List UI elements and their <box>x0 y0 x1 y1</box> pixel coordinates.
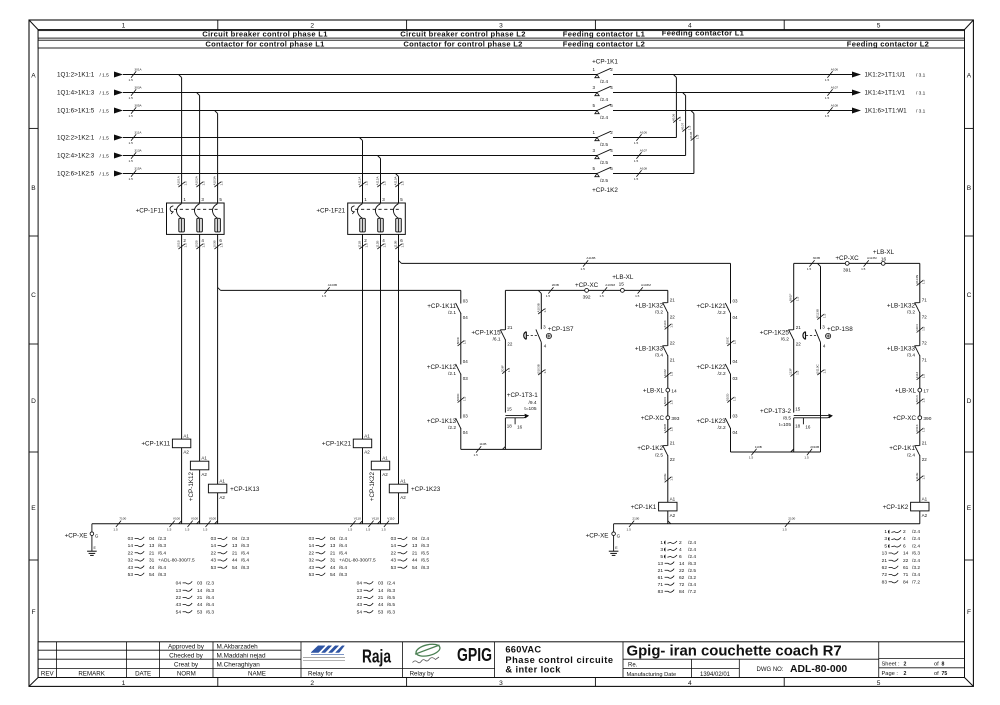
svg-text:/6.5: /6.5 <box>421 558 429 564</box>
svg-text:A2: A2 <box>364 450 370 455</box>
svg-text:22: 22 <box>796 341 802 346</box>
svg-text:1.5: 1.5 <box>922 374 926 379</box>
wire row2 L1 phase 2 <box>123 92 597 94</box>
svg-text:22: 22 <box>903 558 909 564</box>
svg-text:03: 03 <box>197 581 203 587</box>
svg-text:3: 3 <box>499 23 503 30</box>
svg-text:A113A: A113A <box>394 176 398 186</box>
svg-text:1.5: 1.5 <box>634 159 639 163</box>
svg-text:/2.4: /2.4 <box>600 79 608 85</box>
svg-text:510D: 510D <box>726 393 730 401</box>
svg-text:2: 2 <box>310 680 314 687</box>
svg-text:+CP-1K12: +CP-1K12 <box>427 364 457 371</box>
wire label slash A107 output <box>827 89 832 95</box>
wire row5 L2 phase 2 <box>123 155 597 157</box>
wire label slash V100c <box>206 521 211 527</box>
svg-text:311A: 311A <box>134 130 142 134</box>
svg-text:1K1:6>1T1:W1: 1K1:6>1T1:W1 <box>865 108 908 115</box>
svg-text:110B: 110B <box>479 442 486 446</box>
svg-text:13: 13 <box>412 543 418 549</box>
svg-text:Gpig- iran couchette coach R7: Gpig- iran couchette coach R7 <box>627 643 842 659</box>
wire label slash B61F <box>791 297 797 302</box>
svg-text:1.5: 1.5 <box>167 527 172 531</box>
svg-text:/6.3: /6.3 <box>158 543 166 549</box>
svg-text:/2.3: /2.3 <box>241 536 249 542</box>
svg-text:22: 22 <box>670 457 676 462</box>
svg-text:+CP-1K1: +CP-1K1 <box>631 504 657 511</box>
svg-text:B113C: B113C <box>816 364 820 374</box>
svg-text:1.5: 1.5 <box>782 527 787 531</box>
branch row6 to fuse wire 6 with bevel <box>396 174 399 177</box>
svg-text:3: 3 <box>660 547 663 553</box>
svg-text:A1: A1 <box>670 497 676 502</box>
svg-text:+CP-XE: +CP-XE <box>586 532 609 539</box>
svg-text:03: 03 <box>378 581 384 587</box>
svg-text:5: 5 <box>884 543 887 549</box>
svg-text:M.Akbarzadeh: M.Akbarzadeh <box>217 644 259 651</box>
svg-text:21: 21 <box>658 568 664 574</box>
svg-text:13: 13 <box>176 588 182 594</box>
chain F wire segment <box>793 339 795 412</box>
wire label slash A113N <box>917 280 923 285</box>
svg-text:21: 21 <box>670 441 676 446</box>
svg-text:1022: 1022 <box>663 369 667 376</box>
svg-text:31: 31 <box>149 558 155 564</box>
chain H wire segment <box>919 355 921 388</box>
svg-text:16: 16 <box>805 424 811 429</box>
sheet/page cell lines <box>879 658 965 660</box>
svg-text:21: 21 <box>670 357 676 362</box>
svg-text:1.5: 1.5 <box>796 370 800 375</box>
branch row2 to fuse wire 2 with bevel <box>197 93 200 96</box>
wire label slash 313A <box>131 152 136 158</box>
svg-text:/2.4: /2.4 <box>421 536 429 542</box>
svg-text:/6.4: /6.4 <box>339 550 347 556</box>
svg-text:84: 84 <box>679 589 685 595</box>
svg-text:22: 22 <box>507 341 513 346</box>
svg-text:1.5: 1.5 <box>473 453 478 457</box>
svg-text:1.5: 1.5 <box>381 527 386 531</box>
svg-text:ADL-80-000: ADL-80-000 <box>790 664 847 675</box>
svg-text:A013: A013 <box>915 395 919 403</box>
wire label slash B103B chainC <box>538 370 544 375</box>
wire label slash A111A <box>359 182 365 187</box>
svg-text:/6.5: /6.5 <box>387 595 395 601</box>
svg-text:113F: 113F <box>789 368 793 375</box>
wire label slash V110a <box>350 521 355 527</box>
svg-text:72: 72 <box>922 341 928 346</box>
svg-text:03: 03 <box>309 536 315 542</box>
svg-text:6: 6 <box>679 554 682 560</box>
svg-text:21: 21 <box>197 595 203 601</box>
svg-text:04: 04 <box>176 581 182 587</box>
contact CP-1K22 aux 04-03 <box>725 364 730 374</box>
svg-text:Sheet :: Sheet : <box>882 661 900 667</box>
svg-text:Contactor for control phase L1: Contactor for control phase L1 <box>205 39 325 48</box>
wire label slash 500D <box>458 397 464 402</box>
svg-text:54: 54 <box>412 565 418 571</box>
join vertical row2-row5 at x=686 <box>683 93 686 96</box>
svg-text:03: 03 <box>463 376 469 381</box>
svg-text:V110: V110 <box>387 517 394 521</box>
svg-text:04: 04 <box>733 430 739 435</box>
svg-text:1.5: 1.5 <box>463 340 467 345</box>
svg-text:313A: 313A <box>134 148 142 152</box>
svg-text:1Q1:2>1K1:1: 1Q1:2>1K1:1 <box>57 72 95 79</box>
wire label slash 2010B <box>807 449 812 455</box>
wire fuse2 pole2 down to coil CP-1K22 <box>380 234 382 461</box>
wire label slash A103M <box>602 287 607 293</box>
svg-text:/2.5: /2.5 <box>600 142 608 148</box>
svg-text:A108: A108 <box>640 166 648 170</box>
svg-text:1.5: 1.5 <box>822 313 826 318</box>
svg-text:/6.4: /6.4 <box>339 543 347 549</box>
svg-text:15: 15 <box>619 282 625 288</box>
svg-text:+CP-1K22: +CP-1K22 <box>369 471 376 501</box>
svg-text:+CP-1F21: +CP-1F21 <box>316 208 345 215</box>
svg-text:+CP-1K12: +CP-1K12 <box>188 471 195 501</box>
svg-text:1.5: 1.5 <box>183 181 187 186</box>
svg-text:M.Maddahi nejad: M.Maddahi nejad <box>217 653 266 660</box>
svg-text:1.5: 1.5 <box>364 243 368 248</box>
wire label slash 303B <box>809 260 814 266</box>
svg-text:04: 04 <box>330 536 336 542</box>
svg-text:B113B: B113B <box>816 309 820 318</box>
wire label slash A102A <box>196 182 202 187</box>
svg-text:203B: 203B <box>552 283 559 287</box>
svg-text:2010B: 2010B <box>810 445 819 449</box>
svg-text:22: 22 <box>211 550 217 556</box>
svg-text:1.5: 1.5 <box>185 527 190 531</box>
svg-text:F: F <box>967 609 971 616</box>
contact CP-1K12 aux 04-03 <box>456 364 461 374</box>
svg-text:G: G <box>95 533 99 538</box>
svg-text:/6.4: /6.4 <box>206 595 214 601</box>
svg-text:+CP-XC: +CP-XC <box>575 282 599 289</box>
svg-text:101B: 101B <box>177 240 181 247</box>
svg-text:22: 22 <box>357 595 363 601</box>
wire label slash 7100 left <box>116 521 121 527</box>
svg-text:54: 54 <box>357 609 363 615</box>
wire label slash A113B <box>583 260 588 266</box>
svg-text:1.5: 1.5 <box>183 243 187 248</box>
svg-text:+LB-XL: +LB-XL <box>612 274 634 281</box>
earth terminal CP-XE right <box>613 524 615 532</box>
svg-text:/2.2: /2.2 <box>718 310 726 316</box>
svg-text:/2.2: /2.2 <box>718 371 726 377</box>
svg-text:+CP-XC: +CP-XC <box>835 255 859 262</box>
svg-text:/8.3: /8.3 <box>339 572 347 578</box>
wire fuse2 pole1 down to coil CP-1K21 <box>362 234 364 439</box>
svg-text:+CP-1K2: +CP-1K2 <box>883 504 909 511</box>
svg-text:A103M: A103M <box>605 283 615 287</box>
svg-text:A2: A2 <box>670 513 676 518</box>
svg-text:V100: V100 <box>173 517 181 521</box>
contact LB-1K33 22-21 <box>663 345 668 355</box>
svg-text:+CP-1K1: +CP-1K1 <box>889 445 915 452</box>
svg-text:+ADL-80-300/7.5: +ADL-80-300/7.5 <box>158 558 195 564</box>
wire label slash A103B <box>324 287 329 293</box>
contact CP-1K1 pole 1-2 <box>595 75 599 78</box>
svg-text:2100: 2100 <box>788 517 795 521</box>
branch row1 to fuse wire 1 with bevel <box>179 75 182 78</box>
wire label slash 305A <box>131 107 136 113</box>
title block horizontal lines left section <box>38 649 301 651</box>
svg-text:A: A <box>31 73 36 80</box>
svg-text:+CP-1T3-2: +CP-1T3-2 <box>760 408 791 415</box>
svg-text:22: 22 <box>391 550 397 556</box>
relay coil CP-1K13 <box>208 484 226 493</box>
svg-text:C: C <box>31 292 36 299</box>
svg-text:C: C <box>967 292 972 299</box>
svg-text:1.5: 1.5 <box>670 476 674 481</box>
svg-text:NORM: NORM <box>177 671 196 678</box>
wire label slash 2100 b <box>785 521 790 527</box>
svg-text:1Q1:6>1K1:5: 1Q1:6>1K1:5 <box>57 108 95 115</box>
svg-text:1.5: 1.5 <box>543 369 547 374</box>
svg-text:510C: 510C <box>726 336 730 344</box>
svg-text:22: 22 <box>679 568 685 574</box>
chain B tee bevel at bottom <box>502 446 505 449</box>
svg-text:62: 62 <box>679 575 685 581</box>
svg-text:t=105: t=105 <box>779 422 791 428</box>
svg-text:+CP-1K11: +CP-1K11 <box>141 441 170 448</box>
svg-text:/2.5: /2.5 <box>600 178 608 184</box>
svg-text:1.5: 1.5 <box>626 527 631 531</box>
svg-text:22: 22 <box>670 341 676 346</box>
wire label slash 301A <box>131 71 136 77</box>
chain D wire segment <box>667 420 669 446</box>
svg-text:/ 1.5: / 1.5 <box>100 91 110 97</box>
bottom connector2 wire <box>731 451 821 453</box>
svg-text:1.5: 1.5 <box>128 96 133 100</box>
chain H wire down to coil CP-1K2 <box>919 455 921 502</box>
svg-text:1.5: 1.5 <box>670 400 674 405</box>
svg-text:1.5: 1.5 <box>203 527 208 531</box>
svg-text:305A: 305A <box>134 103 142 107</box>
svg-text:21: 21 <box>232 550 238 556</box>
wire label slash 1112 <box>917 375 923 380</box>
wire label slash A101A <box>178 182 184 187</box>
svg-text:/8.3: /8.3 <box>241 565 249 571</box>
svg-text:04: 04 <box>733 359 739 364</box>
chain E wire down to bottom connector2 <box>730 428 732 452</box>
svg-text:14: 14 <box>903 551 909 557</box>
svg-text:A1: A1 <box>183 433 189 438</box>
svg-text:53: 53 <box>309 572 315 578</box>
svg-text:Re.: Re. <box>628 662 638 668</box>
wire label slash A107 <box>636 152 641 158</box>
svg-text:1.5: 1.5 <box>825 78 830 82</box>
svg-text:+CP-1K11: +CP-1K11 <box>427 303 456 310</box>
title block outline <box>38 642 964 678</box>
svg-text:53: 53 <box>378 609 384 615</box>
chain H corner from connector2 <box>919 263 921 303</box>
svg-text:/6.3: /6.3 <box>206 588 214 594</box>
svg-text:1.5: 1.5 <box>113 527 118 531</box>
svg-text:& inter lock: & inter lock <box>505 665 561 675</box>
svg-text:03: 03 <box>463 298 469 303</box>
svg-text:1.5: 1.5 <box>546 294 551 298</box>
bottom column scale ticks <box>217 678 219 687</box>
branch row3 to fuse wire 3 with bevel <box>215 111 218 114</box>
svg-text:/6.4: /6.4 <box>158 565 166 571</box>
wire coil CP-1K2 to bus3 <box>919 511 921 524</box>
svg-text:6: 6 <box>903 543 906 549</box>
svg-text:1K1:4>1T1:V1: 1K1:4>1T1:V1 <box>865 90 906 97</box>
timer contact CP-1T3-2 symbol pins 15/18/16 <box>794 414 829 416</box>
wire coil CP-1K22 to bus <box>380 470 382 524</box>
svg-text:/3.2: /3.2 <box>688 575 696 581</box>
svg-text:+CP-1K25: +CP-1K25 <box>760 329 790 336</box>
svg-text:43: 43 <box>176 602 182 608</box>
chain D wire segment <box>667 355 669 388</box>
svg-text:1.5: 1.5 <box>922 475 926 480</box>
svg-text:V100: V100 <box>209 517 217 521</box>
svg-text:A: A <box>967 73 972 80</box>
wire row4 L2 phase 1 <box>123 137 597 139</box>
svg-text:03: 03 <box>733 413 739 418</box>
svg-text:/2.3: /2.3 <box>158 536 166 542</box>
svg-text:A103B: A103B <box>328 283 337 287</box>
svg-text:1112: 1112 <box>915 371 919 378</box>
svg-text:1.5: 1.5 <box>804 456 809 460</box>
svg-text:/6.3: /6.3 <box>912 551 920 557</box>
svg-text:/6.3: /6.3 <box>421 543 429 549</box>
svg-text:/ 3.1: / 3.1 <box>916 73 926 79</box>
svg-text:15: 15 <box>507 406 513 411</box>
relay coil CP-1K2 <box>911 502 929 511</box>
svg-text:13: 13 <box>149 543 155 549</box>
svg-text:03: 03 <box>733 376 739 381</box>
svg-text:22: 22 <box>128 550 134 556</box>
svg-text:/ 1.5: / 1.5 <box>100 154 110 160</box>
svg-text:M.Cheraghiyan: M.Cheraghiyan <box>217 662 261 669</box>
timer contact CP-1T3-1 symbol pins 15/18/16 <box>505 414 525 416</box>
chain E wire segment <box>730 313 732 365</box>
svg-text:A2: A2 <box>382 472 388 477</box>
svg-text:32: 32 <box>309 558 315 564</box>
wire coil CP-1K21 to bus <box>362 448 364 524</box>
svg-text:+CP-1K15: +CP-1K15 <box>471 329 501 336</box>
svg-text:14: 14 <box>128 543 134 549</box>
svg-text:D: D <box>31 398 36 405</box>
wire fuse2 pole3 down to coil CP-1K23 (tee at bus2) <box>398 234 400 484</box>
svg-text:14: 14 <box>679 561 685 567</box>
svg-text:B103B: B103B <box>536 364 540 373</box>
svg-text:A113N: A113N <box>915 275 919 284</box>
svg-text:/ 1.5: / 1.5 <box>100 172 110 178</box>
svg-text:/2.5: /2.5 <box>655 452 663 458</box>
svg-text:44: 44 <box>378 602 384 608</box>
wire label slash 203F <box>502 369 508 374</box>
chain D wire segment <box>667 312 669 346</box>
svg-text:1: 1 <box>122 23 126 30</box>
svg-text:21: 21 <box>922 441 928 446</box>
svg-text:72: 72 <box>922 314 928 319</box>
svg-text:22: 22 <box>309 550 315 556</box>
wire label slash 510C <box>727 341 733 346</box>
svg-text:+LB-XL: +LB-XL <box>643 387 665 394</box>
svg-text:1.5: 1.5 <box>128 141 133 145</box>
svg-text:A106: A106 <box>671 113 675 121</box>
svg-text:/7.2: /7.2 <box>912 579 920 585</box>
relay coil CP-1K1 <box>659 502 677 511</box>
bottom connector1 wire <box>461 448 542 450</box>
svg-text:31: 31 <box>330 558 336 564</box>
terminal node CP-XC 390 <box>918 416 922 420</box>
contact LB-1K33 72-71 <box>915 345 920 355</box>
svg-text:13: 13 <box>882 551 888 557</box>
svg-text:Relay by: Relay by <box>410 671 435 678</box>
svg-text:03: 03 <box>733 298 739 303</box>
svg-text:14: 14 <box>378 588 384 594</box>
svg-text:1.5: 1.5 <box>732 340 736 345</box>
svg-text:18: 18 <box>795 424 801 429</box>
svg-text:/3.4: /3.4 <box>907 353 915 359</box>
svg-text:13: 13 <box>658 561 664 567</box>
svg-text:E: E <box>31 505 36 512</box>
wire label slash A108 output <box>827 107 832 113</box>
svg-text:Creat by: Creat by <box>174 662 199 669</box>
svg-text:660VAC: 660VAC <box>505 645 541 655</box>
svg-text:103B: 103B <box>213 240 217 247</box>
branch row4 to fuse wire 4 with bevel <box>360 138 363 141</box>
svg-text:71: 71 <box>922 298 928 303</box>
wire row1 L1 phase 1 <box>123 74 597 76</box>
svg-text:21: 21 <box>330 550 336 556</box>
svg-text:84: 84 <box>903 579 909 585</box>
header bar row 2 box <box>38 40 964 48</box>
svg-text:1.5: 1.5 <box>634 141 639 145</box>
contact CP-1K25 NC 21-22 <box>789 330 794 340</box>
svg-text:/2.3: /2.3 <box>206 581 214 587</box>
svg-text:A103M: A103M <box>641 283 651 287</box>
chain D wire down to coil CP-1K1 <box>667 455 669 502</box>
svg-text:Approved by: Approved by <box>168 644 205 651</box>
svg-text:75: 75 <box>942 671 948 677</box>
svg-text:16: 16 <box>881 257 887 263</box>
svg-text:71: 71 <box>922 357 928 362</box>
svg-text:/3.2: /3.2 <box>655 310 663 316</box>
output destination arrow 1K1:2>1T1:U1 <box>852 72 861 78</box>
chain C branch bevel from connector1 <box>538 290 541 293</box>
wire label slash 100E <box>665 477 671 482</box>
wire label slash 203B <box>548 287 553 293</box>
svg-text:1.5: 1.5 <box>382 243 386 248</box>
contact LB-1K32 71-72 <box>915 302 920 312</box>
chain E corner from bus2 <box>730 263 732 303</box>
svg-text:13: 13 <box>330 543 336 549</box>
svg-text:NAME: NAME <box>248 671 266 678</box>
svg-text:2: 2 <box>903 529 906 535</box>
svg-text:1.5: 1.5 <box>796 296 800 301</box>
wire label slash A106 <box>636 134 641 140</box>
contact CP-1K23 aux 03-04 <box>725 418 730 428</box>
relay coil CP-1K12 <box>190 461 208 470</box>
svg-text:03: 03 <box>463 413 469 418</box>
svg-text:03: 03 <box>211 536 217 542</box>
svg-text:1.5: 1.5 <box>922 279 926 284</box>
title cell sub-lines <box>623 658 879 660</box>
wire label slash 500C <box>458 341 464 346</box>
wire label slash A003 <box>665 401 671 406</box>
wire fuse1 pole1 down to coil CP-1K11 <box>181 234 183 439</box>
join vertical row3-row6 at x=694 <box>691 111 694 114</box>
svg-text:54: 54 <box>149 572 155 578</box>
svg-text:A1: A1 <box>201 455 207 460</box>
svg-text:+CP-1T3-1: +CP-1T3-1 <box>507 392 538 399</box>
